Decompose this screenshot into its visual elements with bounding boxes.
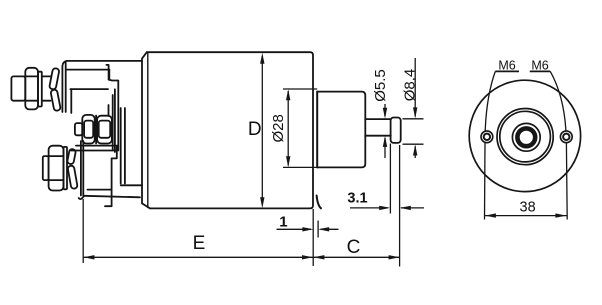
arrow O28 up <box>286 89 290 100</box>
dimension C line <box>313 256 400 258</box>
dimension E/C extension middle <box>312 209 314 266</box>
dimension 3.1 line left <box>350 207 388 209</box>
top lock washer tab lower <box>50 89 60 111</box>
cap left edge outer <box>62 61 67 112</box>
svg-text:E: E <box>193 233 206 254</box>
arrow 1 left <box>318 227 329 231</box>
dimension 3.1 extension left <box>389 144 391 214</box>
lower lock washer tab upper <box>67 149 76 165</box>
middle terminal left tab <box>75 123 82 135</box>
svg-text:3.1: 3.1 <box>347 191 367 207</box>
dimension O28 extension top <box>283 88 317 90</box>
arrow O5.5 up <box>383 136 387 147</box>
dimension O28 line <box>287 91 289 166</box>
solenoid body outline <box>147 52 313 208</box>
dimension O8.4 line lower <box>414 146 416 158</box>
dimension E line <box>83 256 313 258</box>
lower lock washer tab lower <box>67 165 77 189</box>
svg-text:M6: M6 <box>531 58 548 72</box>
end view flange circle <box>469 80 580 191</box>
body left inner edge <box>147 53 149 207</box>
bracket right wall lines <box>120 108 122 184</box>
dimension O5.5 line upper <box>384 104 386 116</box>
left mounting hole inner <box>484 134 490 140</box>
dimension O8.4 extension bottom <box>403 143 424 145</box>
bracket foot curve <box>79 196 84 199</box>
arrow 38 left <box>485 213 496 217</box>
cap inner step lines <box>106 65 118 151</box>
arrow 3.1 left <box>400 206 411 210</box>
M6 leader left <box>485 71 495 130</box>
arrow E right <box>302 255 313 259</box>
dimension 1 extension <box>317 221 319 238</box>
arrow O28 down <box>286 156 290 167</box>
lower terminal hex nut <box>49 146 64 191</box>
dimension O5.5 line lower <box>384 138 386 158</box>
right mounting hole inner <box>563 134 569 140</box>
arrow O8.4 down <box>413 107 417 118</box>
dimension 3.1 extension right long <box>399 145 401 267</box>
end view boss inner circle <box>500 111 551 162</box>
bracket top edge <box>71 150 117 152</box>
bracket lower edge <box>121 184 142 186</box>
dimension 1 line left <box>277 228 312 230</box>
top stud thread lines <box>42 75 51 77</box>
arrow D up <box>260 53 264 64</box>
end view bearing dark ring <box>517 128 535 146</box>
svg-text:Ø8.4: Ø8.4 <box>401 69 418 102</box>
svg-text:1: 1 <box>279 214 287 231</box>
left mounting hole outer <box>481 131 493 143</box>
mounting flange left edge <box>142 52 150 208</box>
dimension 38 extension left <box>484 143 487 220</box>
M6 underline right <box>530 70 551 72</box>
right mounting hole outer <box>560 131 572 143</box>
cap top edge <box>67 60 142 62</box>
svg-text:38: 38 <box>520 200 536 216</box>
svg-text:M6: M6 <box>498 58 515 72</box>
cap left edge inner <box>65 63 67 113</box>
lower terminal washer <box>64 147 68 189</box>
M6 leader right <box>550 71 566 130</box>
end cap face line <box>316 92 318 168</box>
svg-text:Ø28: Ø28 <box>270 114 287 142</box>
middle terminal divider <box>95 116 97 144</box>
dimension 1 line right <box>321 228 339 230</box>
arrow O5.5 down <box>383 108 387 119</box>
bracket foot line <box>105 205 112 207</box>
dimension 3.1 line right <box>401 207 424 209</box>
dimension O28 extension bottom <box>283 166 317 168</box>
shaft bottom line <box>365 135 391 137</box>
bracket step <box>112 146 117 206</box>
arrow 38 right <box>555 213 566 217</box>
shaft top line <box>365 118 391 120</box>
svg-text:Ø5.5: Ø5.5 <box>372 69 389 102</box>
dimension O8.4 line upper <box>414 58 416 117</box>
middle terminal right nut <box>97 116 112 144</box>
arrow C right <box>389 255 400 259</box>
terminal post <box>108 105 110 116</box>
dimension 38 line <box>485 215 567 217</box>
bottom-right corner chamfer <box>317 196 321 209</box>
plunger housing cylinder <box>317 92 365 168</box>
dimension 38 extension right <box>565 143 568 220</box>
cap top inner edge <box>66 69 109 71</box>
arrow D down <box>260 197 264 208</box>
arrow C left <box>313 255 324 259</box>
stop ring disc <box>391 118 401 143</box>
svg-text:D: D <box>248 119 262 140</box>
bracket bottom sloped edge <box>84 196 140 198</box>
end view boss outer circle <box>497 109 553 165</box>
bracket left plate <box>80 141 82 196</box>
top terminal stud shank <box>11 76 25 100</box>
arrow O8.4 up <box>413 145 417 156</box>
arrow 3.1 right <box>379 206 390 210</box>
top terminal hex nut <box>25 68 38 110</box>
svg-text:C: C <box>347 237 361 258</box>
bracket inner box bottom <box>88 189 112 191</box>
dimension D line <box>261 56 263 205</box>
middle terminal left nut <box>82 115 94 144</box>
top terminal washer <box>38 72 42 107</box>
top lock washer tab upper <box>49 68 59 90</box>
end view middle ring <box>512 123 540 151</box>
dimension E extension left <box>82 199 84 263</box>
dimension O8.4 extension top <box>403 118 424 120</box>
arrow E left <box>83 255 94 259</box>
lower terminal stud shank <box>43 156 49 180</box>
M6 underline left <box>495 70 519 72</box>
middle terminal base line <box>76 145 117 147</box>
arrow 1 right <box>302 227 313 231</box>
